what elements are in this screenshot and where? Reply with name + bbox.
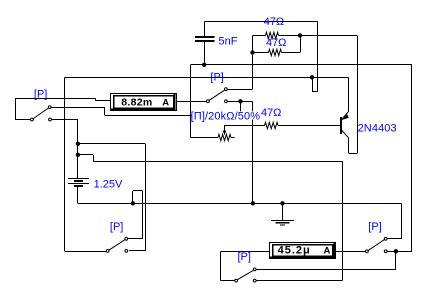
svg-text:47Ω: 47Ω — [264, 16, 284, 28]
svg-text:[P]: [P] — [368, 221, 381, 233]
svg-text:A: A — [162, 98, 169, 109]
svg-text:[P]: [P] — [210, 71, 223, 83]
svg-text:1.25V: 1.25V — [94, 178, 123, 190]
svg-text:8.82m: 8.82m — [121, 97, 152, 109]
svg-text:45.2μ: 45.2μ — [278, 245, 311, 257]
svg-text:[P]: [P] — [238, 251, 251, 263]
svg-text:[Π]/20kΩ/50%: [Π]/20kΩ/50% — [191, 110, 261, 122]
svg-text:[P]: [P] — [110, 221, 123, 233]
svg-text:2N4403: 2N4403 — [358, 123, 397, 135]
svg-text:5nF: 5nF — [219, 35, 238, 47]
svg-text:47Ω: 47Ω — [261, 107, 281, 119]
svg-text:A: A — [324, 246, 331, 257]
svg-text:47Ω: 47Ω — [266, 37, 286, 49]
svg-text:[P]: [P] — [34, 89, 47, 101]
